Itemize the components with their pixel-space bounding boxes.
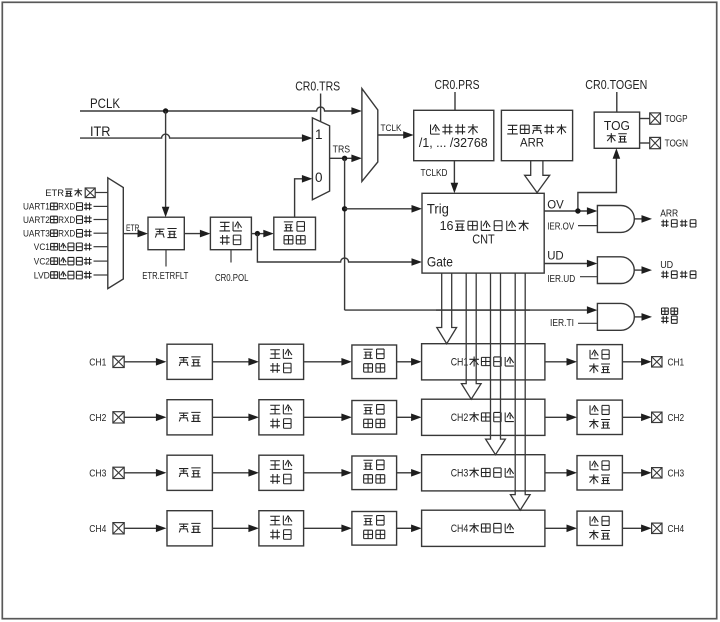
- svg-text:1: 1: [315, 127, 323, 142]
- wire UD: [544, 263, 587, 265]
- svg-text:TOGP: TOGP: [665, 114, 688, 125]
- hollow arrow CNT bus x496: [486, 273, 506, 455]
- output pad CH3: [652, 468, 662, 478]
- filter box CH4: [167, 511, 212, 546]
- counter box CNT: [422, 193, 544, 273]
- wire TRS to Trig: [345, 208, 412, 210]
- svg-text:CH4: CH4: [668, 524, 685, 535]
- node OV junction: [575, 208, 580, 213]
- wire CH3 edge to capture: [397, 472, 412, 474]
- svg-text:ITR: ITR: [90, 124, 111, 139]
- wire CH1 edge to capture: [397, 361, 412, 363]
- wire TRS down: [344, 158, 346, 310]
- mux clock select: [362, 89, 378, 182]
- wire UD interrupt out: [634, 269, 643, 271]
- svg-text:ARR: ARR: [660, 208, 678, 220]
- svg-text:TCLK: TCLK: [381, 123, 403, 134]
- node TRS to Trig junction: [342, 206, 347, 211]
- mux ETR source select: [108, 178, 124, 289]
- hollow arrow CNT bus x520: [510, 273, 530, 510]
- hollow arrow ARR to CNT: [525, 161, 550, 193]
- svg-text:16: 16: [440, 219, 454, 233]
- output control box CH2: [577, 400, 622, 434]
- edge detect box CH4: [352, 512, 397, 546]
- wire TOGN: [640, 142, 650, 144]
- wire CH4 filter to polarity: [213, 527, 249, 529]
- svg-text:CR0.PRS: CR0.PRS: [435, 78, 480, 92]
- label ETR.ETRFLT: [165, 250, 167, 267]
- wire CR0.PRS: [454, 92, 456, 110]
- svg-text:UART1: UART1: [23, 202, 50, 213]
- polarity box CH3: [259, 455, 304, 490]
- edge detect box CH3: [352, 456, 397, 490]
- wire CH2 edge to capture: [397, 416, 412, 418]
- output control box CH4: [577, 511, 622, 545]
- wire CH1 out: [622, 361, 641, 363]
- wire CH1 polarity to edge: [304, 361, 342, 363]
- wire CR0.TOGEN: [616, 92, 618, 112]
- svg-text:RXD: RXD: [58, 215, 75, 226]
- wire trigger interrupt out: [634, 316, 643, 318]
- wire CH2 filter to polarity: [213, 416, 249, 418]
- svg-text:IER.UD: IER.UD: [547, 274, 575, 285]
- svg-text:CH2: CH2: [451, 412, 469, 424]
- wire CH2 polarity to edge: [304, 416, 342, 418]
- wire CH1 filter to polarity: [213, 361, 249, 363]
- prescaler box: [414, 110, 494, 160]
- wire CH3 capture to output control: [545, 472, 567, 474]
- svg-text:CH1: CH1: [668, 357, 685, 368]
- svg-text:UD: UD: [547, 251, 564, 263]
- svg-text:0: 0: [315, 170, 323, 185]
- svg-text:OV: OV: [547, 200, 564, 212]
- wire edge detect to mux 0: [295, 179, 303, 217]
- reload register ARR box: [501, 110, 572, 160]
- output pad CH4: [652, 523, 662, 533]
- svg-text:CH4: CH4: [89, 524, 106, 535]
- capture compare box CH4: [422, 510, 545, 546]
- node TRS junction: [342, 156, 347, 161]
- wire CH3 in: [124, 472, 156, 474]
- wire PCLK: [80, 107, 352, 111]
- node polarity output junction: [251, 233, 263, 235]
- ETR polarity box: [184, 233, 200, 235]
- svg-text:CH1: CH1: [89, 358, 106, 369]
- edge detect box CH1: [352, 345, 397, 379]
- filter box CH3: [167, 455, 212, 490]
- wire CH2 capture to output control: [545, 416, 567, 418]
- svg-text:CR0.TRS: CR0.TRS: [295, 80, 340, 94]
- svg-text:CH2: CH2: [668, 413, 685, 424]
- wire CH2 out: [622, 416, 641, 418]
- TOG control box: [594, 112, 639, 148]
- svg-text:CR0.TOGEN: CR0.TOGEN: [585, 78, 647, 92]
- wire CH3 out: [622, 472, 641, 474]
- capture compare box CH1: [422, 344, 545, 380]
- svg-text:VC2: VC2: [34, 256, 50, 267]
- wire CH4 in: [124, 527, 156, 529]
- svg-text:UD: UD: [660, 259, 673, 271]
- ETR edge detect box: [274, 217, 316, 250]
- svg-text:Trig: Trig: [427, 201, 449, 217]
- TOGP pad: [650, 113, 661, 124]
- wire CH1 capture to output control: [545, 361, 567, 363]
- wire TRS output: [330, 157, 352, 159]
- wire CH4 edge to capture: [397, 527, 412, 529]
- svg-text:CNT: CNT: [472, 232, 495, 247]
- wire CR0.TRS select: [320, 94, 322, 123]
- svg-text:UART2: UART2: [23, 215, 50, 226]
- wire CH3 filter to polarity: [213, 472, 249, 474]
- svg-text:CH2: CH2: [89, 413, 106, 424]
- AND gate UD overflow: [597, 257, 634, 284]
- TOGN pad: [650, 137, 661, 148]
- edge detect box CH2: [352, 401, 397, 435]
- node PCLK junction: [163, 108, 168, 113]
- svg-text:TOG: TOG: [604, 119, 630, 133]
- hollow arrow CNT bus x447: [437, 273, 457, 344]
- ETR filter box: [148, 217, 184, 250]
- AND gate ARR overflow: [597, 206, 634, 233]
- capture compare box CH3: [422, 455, 545, 491]
- svg-text:TRS: TRS: [333, 143, 351, 155]
- label CR0.POL: [230, 250, 232, 263]
- output control box CH3: [577, 456, 622, 490]
- wire OV to TOG control: [578, 158, 617, 211]
- filter box CH1: [167, 344, 212, 379]
- svg-text:PCLK: PCLK: [90, 96, 120, 111]
- svg-text:TOGN: TOGN: [665, 139, 689, 150]
- svg-text:IER.OV: IER.OV: [547, 222, 574, 233]
- svg-text:RXD: RXD: [58, 202, 75, 213]
- svg-text:ARR: ARR: [520, 135, 544, 149]
- wire TOGP: [640, 118, 650, 120]
- wire CH4 polarity to edge: [304, 527, 342, 529]
- svg-text:ETR.ETRFLT: ETR.ETRFLT: [142, 271, 188, 282]
- svg-text:IER.TI: IER.TI: [550, 318, 574, 329]
- output pad CH1: [652, 357, 662, 367]
- svg-text:CH3: CH3: [451, 467, 469, 479]
- wire CH2 in: [124, 416, 156, 418]
- hollow arrow CNT bus x471: [461, 273, 481, 399]
- wire TCLKD: [453, 161, 455, 184]
- svg-text:UART3: UART3: [23, 229, 50, 240]
- svg-text:CH4: CH4: [451, 523, 469, 535]
- polarity box CH2: [259, 400, 304, 435]
- polarity box CH1: [259, 344, 304, 379]
- wire CH1 in: [124, 361, 156, 363]
- AND gate trigger: [597, 303, 634, 330]
- svg-text:LVD: LVD: [34, 270, 50, 281]
- wire TCLK: [378, 134, 404, 136]
- output control box CH1: [577, 345, 622, 379]
- filter box CH2: [167, 400, 212, 435]
- wire CH3 polarity to edge: [304, 472, 342, 474]
- wire CH4 out: [622, 527, 641, 529]
- svg-text:TCLKD: TCLKD: [421, 168, 448, 179]
- wire CH4 capture to output control: [545, 527, 567, 529]
- svg-text:CH3: CH3: [89, 469, 106, 480]
- wire PCLK to ETR filter clock: [165, 111, 167, 207]
- wire gate: [257, 234, 412, 262]
- mux TRS select: [312, 118, 329, 200]
- polarity box CH4: [259, 511, 304, 546]
- wire TRS to trigger AND gate: [345, 309, 588, 311]
- svg-text:CH3: CH3: [668, 468, 685, 479]
- output pad CH2: [652, 412, 662, 422]
- svg-text:Gate: Gate: [427, 254, 453, 270]
- wire ITR: [80, 134, 302, 138]
- svg-text:VC1: VC1: [34, 242, 50, 253]
- label trigger interrupt: [662, 308, 669, 314]
- svg-text:ETR: ETR: [45, 188, 64, 199]
- svg-text:/1, ... /32768: /1, ... /32768: [419, 136, 488, 150]
- wire trigger crossing: [436, 309, 530, 311]
- wire ARR interrupt out: [634, 218, 643, 220]
- svg-text:CR0.POL: CR0.POL: [215, 273, 249, 284]
- svg-text:RXD: RXD: [58, 229, 75, 240]
- wire OV: [544, 210, 587, 212]
- capture compare box CH2: [422, 399, 545, 435]
